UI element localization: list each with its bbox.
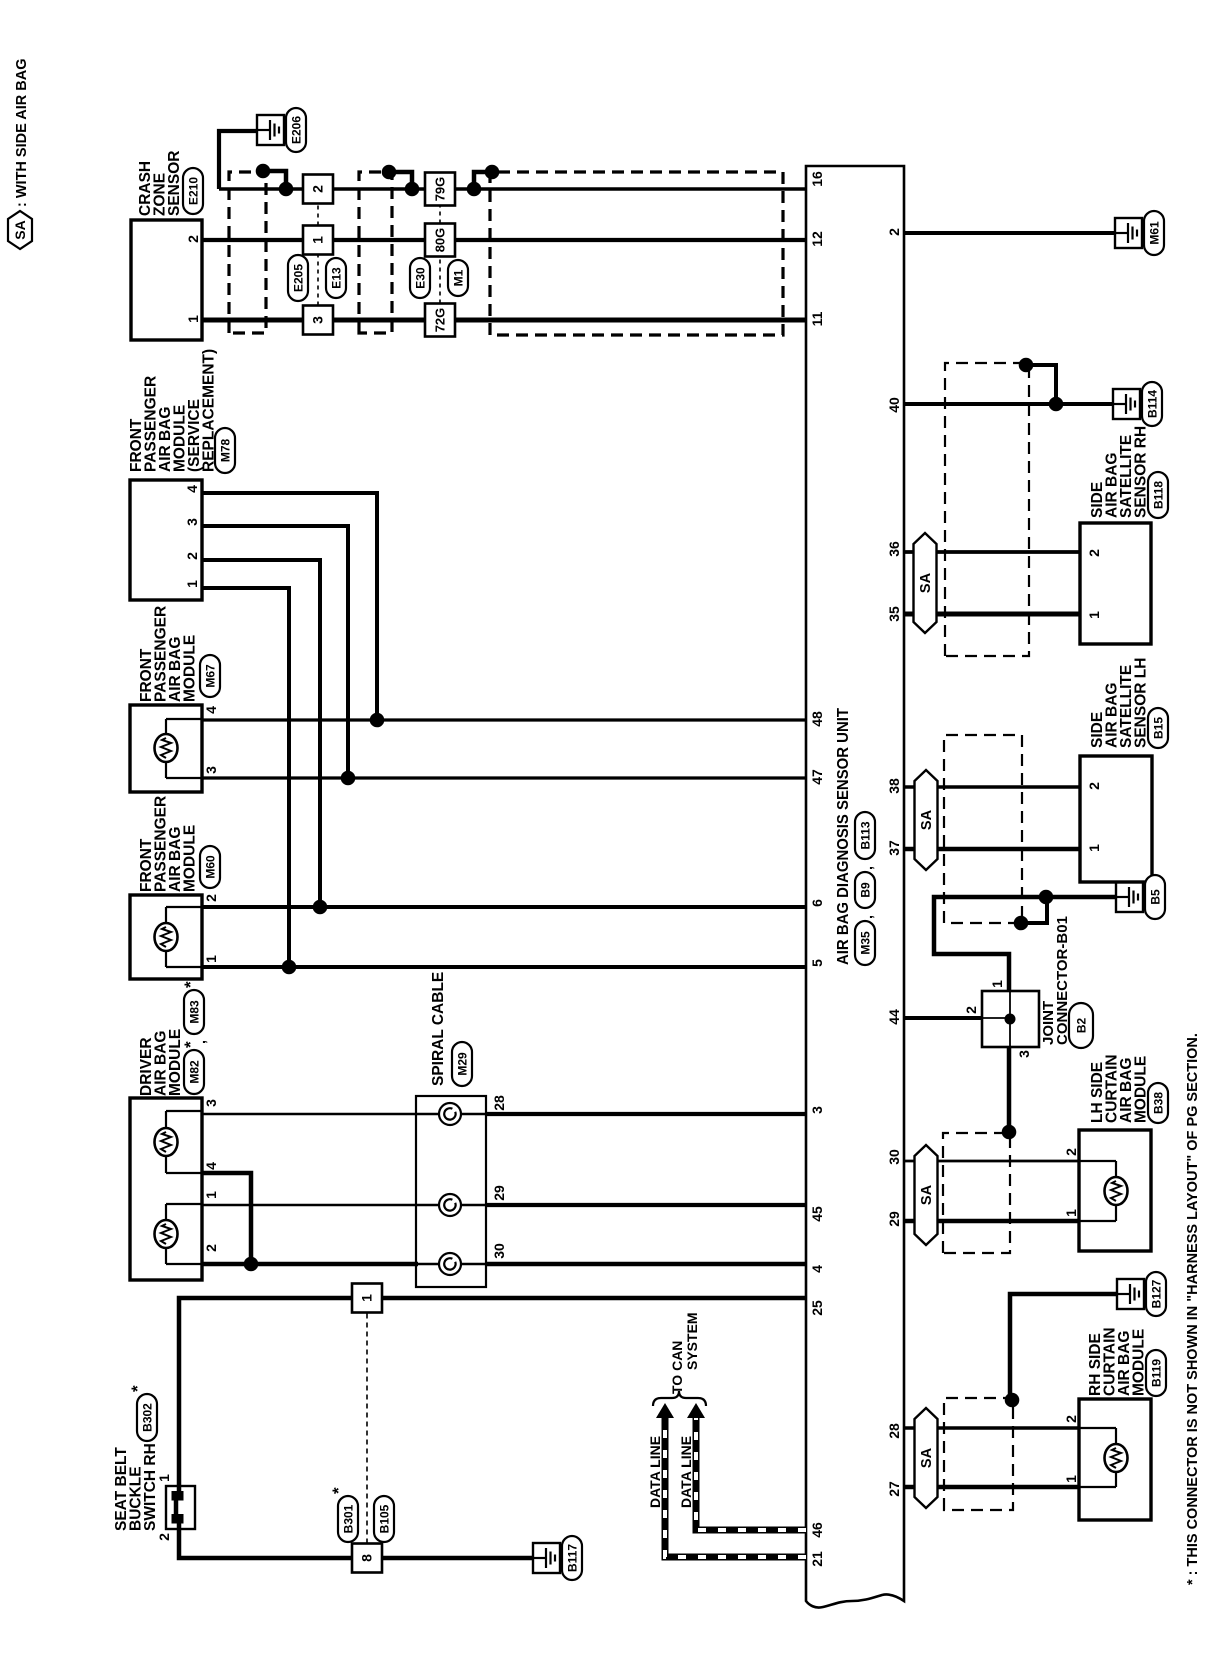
wire M78 pin3 to node 47 (202, 526, 355, 785)
svg-text:,: , (859, 915, 875, 919)
svg-text:E13: E13 (329, 267, 343, 289)
svg-text:M67: M67 (203, 664, 217, 688)
front passenger air bag module M67 box (130, 705, 219, 792)
svg-text:2: 2 (156, 1533, 172, 1541)
svg-text:B118: B118 (1151, 481, 1165, 509)
svg-text:35: 35 (886, 606, 902, 622)
connector ovals E30 M1 (410, 258, 468, 298)
M78 label (128, 349, 235, 473)
data line wire to CAN (bus pin 21) (656, 1403, 806, 1557)
side air bag satellite sensor RH box (1080, 523, 1151, 644)
M60 label (138, 796, 220, 892)
svg-text:DATA LINE: DATA LINE (678, 1436, 694, 1508)
svg-text:29: 29 (491, 1185, 507, 1201)
wire driver pin1 to spiral cable (202, 1204, 439, 1207)
svg-text:SA: SA (918, 572, 934, 593)
svg-text:1: 1 (1086, 611, 1102, 619)
LH side curtain air bag module box (1063, 1130, 1151, 1251)
svg-text:1: 1 (184, 580, 200, 588)
svg-text:B15: B15 (1151, 717, 1165, 739)
satellite RH label (1089, 426, 1168, 518)
svg-text:1: 1 (1086, 844, 1102, 852)
front passenger air bag module service replacement M78 box (130, 480, 202, 600)
svg-text:2: 2 (203, 894, 219, 902)
shield dashed box LH curtain (943, 1133, 1010, 1253)
wire M67 pin4 to bus pin48 (202, 718, 806, 721)
bus bottom pin numbers 2 40 36 35 38 37 44 30 29 28 27 (886, 228, 902, 1497)
svg-text:8: 8 (359, 1554, 375, 1562)
svg-text:45: 45 (809, 1206, 825, 1222)
dashed link between connectors 1 and 8 (366, 1313, 368, 1544)
svg-text:27: 27 (886, 1481, 902, 1497)
svg-text:2: 2 (886, 228, 902, 236)
shield dashed box S3 (490, 172, 783, 335)
svg-text:M61: M61 (1147, 221, 1161, 245)
svg-text:4: 4 (184, 485, 200, 493)
SA section hexagon RH curtain (915, 1408, 938, 1508)
seat belt buckle switch label (113, 1385, 159, 1531)
wire RH curtain shield drain to ground B127 (1005, 1294, 1117, 1407)
svg-text:2: 2 (310, 185, 326, 193)
svg-text:6: 6 (809, 899, 825, 907)
M67 label (138, 606, 220, 702)
svg-text:2: 2 (963, 1006, 979, 1014)
SA section hexagon LH satellite (915, 770, 938, 870)
wire bus pin28 to RH curtain pin2 (904, 1426, 1079, 1429)
front passenger air bag module M60 box (130, 894, 219, 979)
crash zone sensor label (137, 151, 203, 216)
wire M78 pin4 to node 48 (202, 493, 384, 727)
squib RH curtain (1105, 1444, 1128, 1472)
svg-text:2: 2 (1063, 1148, 1079, 1156)
svg-text:,: , (859, 866, 875, 870)
ground B114 (1113, 382, 1162, 426)
svg-text:1: 1 (1063, 1209, 1079, 1217)
svg-text:SYSTEM: SYSTEM (684, 1312, 700, 1370)
svg-text:72G: 72G (433, 308, 448, 333)
svg-text:3: 3 (310, 316, 326, 324)
wire driver pin3 to spiral cable (202, 1113, 439, 1116)
svg-text:11: 11 (809, 311, 825, 326)
svg-text:3: 3 (1016, 1050, 1032, 1058)
wire bus pin27 to RH curtain pin1 (904, 1485, 1079, 1489)
wire spiral pin29 to bus pin45 (439, 1204, 806, 1207)
svg-text:1: 1 (1063, 1475, 1079, 1483)
svg-text:E206: E206 (289, 116, 303, 144)
wire switch pin2 to ground B117 (179, 1522, 533, 1558)
svg-text:B5: B5 (1148, 889, 1162, 905)
squib driver lower (155, 1220, 178, 1248)
svg-text:12: 12 (809, 231, 825, 247)
svg-text:SPIRAL CABLE: SPIRAL CABLE (430, 972, 447, 1086)
svg-text:2: 2 (185, 235, 201, 243)
ground B5 (1116, 875, 1165, 919)
svg-text:44: 44 (886, 1009, 902, 1025)
crash zone sensor E210 box (131, 220, 202, 340)
air bag diagnosis sensor unit box M35/B9/B113 (806, 166, 904, 1608)
connector square 8 on ground wire (352, 1544, 382, 1573)
driver module label (138, 981, 208, 1096)
svg-text:4: 4 (203, 706, 219, 714)
svg-text:,: , (192, 1040, 208, 1044)
svg-text:1: 1 (203, 1191, 219, 1199)
svg-text:36: 36 (886, 541, 902, 557)
svg-text:4: 4 (809, 1265, 825, 1273)
svg-text:B9: B9 (858, 882, 872, 898)
svg-text:MODULE: MODULE (167, 1029, 184, 1096)
wire bus pin35 to satellite RH pin1 (904, 612, 1080, 617)
shield dashed box RH satellite (945, 363, 1029, 656)
bus top pin numbers 16 12 11 48 47 6 5 3 45 4 25 46 21 (809, 171, 825, 1567)
wire M78 pin2 to node 6 (202, 560, 327, 914)
joint connector label (1040, 916, 1093, 1048)
svg-text:28: 28 (491, 1095, 507, 1111)
svg-text:B38: B38 (1151, 1092, 1165, 1114)
connector square 1 on wire 25 (352, 1284, 382, 1313)
ground E206 (257, 108, 306, 152)
brace to CAN system (653, 1391, 706, 1406)
svg-text:*: * (181, 981, 200, 988)
wire bus pin44 to joint connector pin2 (904, 1016, 982, 1020)
shield dashed box S2 (359, 172, 392, 333)
connector ovals E205 E13 (288, 255, 346, 301)
svg-text:B119: B119 (1149, 1359, 1163, 1387)
svg-text:1: 1 (203, 955, 219, 963)
svg-text:E30: E30 (413, 267, 427, 289)
ground M61 (1115, 211, 1164, 255)
svg-text:46: 46 (809, 1522, 825, 1538)
ground B117 (533, 1536, 582, 1580)
shield drain junction dots S1 (256, 164, 294, 197)
connector row E30/M1 squares 79G 80G 72G (425, 173, 455, 337)
wire driver pin4 to node with pin2 (202, 1173, 258, 1271)
svg-text:28: 28 (886, 1423, 902, 1439)
squib driver upper (155, 1128, 178, 1156)
wire spiral pin28 to bus pin3 (439, 1113, 806, 1116)
svg-text:16: 16 (809, 171, 825, 187)
svg-text:47: 47 (809, 769, 825, 785)
svg-text:29: 29 (886, 1211, 902, 1227)
svg-text:SA: SA (12, 220, 28, 239)
svg-text:3: 3 (809, 1106, 825, 1114)
svg-text:5: 5 (809, 959, 825, 967)
squib LH curtain (1105, 1177, 1128, 1205)
svg-text:M60: M60 (203, 855, 217, 879)
connector row E205/E13 squares 2 1 3 (303, 175, 333, 335)
wire switch pin1 to bus pin25 (179, 1298, 806, 1492)
switch contacts (172, 1491, 184, 1524)
svg-text:SENSOR: SENSOR (166, 151, 183, 216)
svg-text:21: 21 (809, 1551, 825, 1567)
slip ring contact pin29 (439, 1194, 461, 1216)
svg-text:B114: B114 (1145, 390, 1159, 418)
slip ring contact pin30 (439, 1253, 461, 1275)
svg-text:M83: M83 (187, 1000, 201, 1024)
svg-text:M82: M82 (187, 1060, 201, 1084)
wire crash pin2 to bus pin12 (202, 238, 806, 242)
svg-text:E210: E210 (186, 177, 200, 205)
data line wire to CAN (bus pin 46) (687, 1403, 806, 1530)
squib M67 (155, 734, 178, 762)
wire bus pin37 to satellite LH pin1 (904, 847, 1080, 852)
spiral cable M29 box (416, 1095, 507, 1287)
svg-text:B113: B113 (858, 821, 872, 849)
connector ovals B301 B105 (329, 1487, 394, 1542)
wire bus pin2 to ground M61 (904, 231, 1115, 235)
shield dashed box RH curtain (944, 1398, 1013, 1510)
wire joint pin1 to ground B5 (934, 890, 1116, 991)
wire M67 pin3 to bus pin47 (202, 776, 806, 779)
svg-text:2: 2 (1086, 782, 1102, 790)
svg-text:2: 2 (1063, 1415, 1079, 1423)
shield drain LH satellite to ground wire (1014, 897, 1047, 930)
RH side curtain air bag module box (1063, 1399, 1151, 1520)
svg-text:40: 40 (886, 397, 902, 413)
svg-text:4: 4 (203, 1162, 219, 1170)
svg-text:1: 1 (185, 315, 201, 323)
svg-text:2: 2 (1086, 549, 1102, 557)
svg-text:*: * (128, 1385, 147, 1392)
wire bus pin30 to LH curtain pin2 (904, 1160, 1079, 1163)
wire M60 pin1 to bus pin5 (202, 965, 806, 969)
wire joint pin3 to LH curtain shield (1002, 1047, 1017, 1139)
satellite LH label (1089, 658, 1168, 748)
shield drain junction dots S3 (467, 165, 500, 197)
wire spiral pin30 to bus pin4 (486, 1262, 806, 1267)
svg-text:B117: B117 (565, 1544, 579, 1572)
svg-text:: WITH SIDE AIR BAG: : WITH SIDE AIR BAG (14, 59, 30, 207)
wire M78 pin1 to node 5 (202, 588, 296, 974)
svg-text:2: 2 (203, 1244, 219, 1252)
svg-text:SA: SA (919, 809, 935, 830)
svg-text:AIR BAG DIAGNOSIS SENSOR UNIT: AIR BAG DIAGNOSIS SENSOR UNIT (835, 707, 852, 965)
wire bus pin38 to satellite LH pin2 (904, 785, 1080, 789)
svg-text:M35: M35 (858, 931, 872, 955)
svg-text:E205: E205 (291, 264, 305, 292)
to CAN system label (669, 1312, 700, 1394)
svg-text:TO CAN: TO CAN (669, 1341, 685, 1394)
svg-text:M1: M1 (451, 269, 465, 286)
side air bag satellite sensor LH box (1080, 756, 1152, 882)
slip ring contact pin28 (439, 1103, 461, 1125)
svg-text:B105: B105 (377, 1504, 391, 1533)
svg-text:30: 30 (886, 1149, 902, 1165)
header text WITH SIDE AIR BAG (14, 59, 30, 207)
svg-text:MODULE: MODULE (182, 825, 199, 892)
RH curtain label (1087, 1327, 1166, 1396)
svg-text:B2: B2 (1074, 1018, 1088, 1034)
wire crash pin1 to bus pin11 (202, 318, 806, 323)
svg-text:DATA LINE: DATA LINE (647, 1436, 663, 1508)
wire bus pin29 to LH curtain pin1 (904, 1219, 1079, 1224)
svg-text:M78: M78 (218, 439, 232, 463)
svg-text:25: 25 (809, 1300, 825, 1316)
svg-text:2: 2 (184, 552, 200, 560)
svg-text:79G: 79G (433, 177, 448, 202)
svg-text:1: 1 (310, 236, 326, 244)
svg-text:37: 37 (886, 840, 902, 856)
svg-text:SA: SA (919, 1184, 935, 1205)
SA section hexagon LH curtain (915, 1145, 938, 1245)
svg-text:B127: B127 (1149, 1279, 1163, 1308)
squib M60 (155, 923, 178, 951)
svg-text:3: 3 (203, 1099, 219, 1107)
shield dashed box LH satellite (944, 735, 1022, 923)
wire bus pin40 to ground B114 (904, 397, 1113, 412)
svg-text:M29: M29 (455, 1052, 469, 1076)
seat belt buckle switch RH B302 box (156, 1474, 195, 1541)
svg-text:3: 3 (184, 518, 200, 526)
svg-text:MODULE: MODULE (182, 635, 199, 702)
svg-text:B302: B302 (140, 1403, 154, 1432)
svg-text:1: 1 (989, 980, 1005, 988)
LH curtain label (1089, 1054, 1168, 1123)
svg-text:30: 30 (491, 1243, 507, 1259)
shield drain elbow to B114 wire (1019, 358, 1056, 404)
svg-text:B301: B301 (341, 1504, 355, 1533)
svg-text:SWITCH RH: SWITCH RH (142, 1443, 159, 1531)
svg-text:80G: 80G (433, 228, 448, 253)
wire bus pin36 to satellite RH pin2 (904, 550, 1080, 554)
svg-text:3: 3 (203, 766, 219, 774)
footnote asterisk note (1185, 1033, 1201, 1585)
data line labels (647, 1436, 694, 1508)
driver air bag module box M82 M83 (130, 1098, 219, 1280)
svg-text:1: 1 (359, 1294, 375, 1302)
wire M60 pin2 to bus pin6 (202, 905, 806, 909)
shield drain junction dots S2 (382, 165, 420, 197)
wire driver pin2 to spiral cable (202, 1262, 418, 1267)
ground B127 (1117, 1272, 1166, 1316)
joint connector B01 B2 box (963, 980, 1039, 1058)
shield dashed box S1 (229, 172, 266, 333)
svg-text:* : THIS CONNECTOR IS NOT SHO: * : THIS CONNECTOR IS NOT SHOWN IN "HARN… (1185, 1033, 1201, 1585)
SA section hexagon RH satellite (914, 533, 937, 633)
svg-text:*: * (329, 1487, 348, 1494)
wire shield drain to bus pin16 (219, 131, 806, 189)
spiral cable label (430, 972, 472, 1086)
svg-text:38: 38 (886, 778, 902, 794)
header SA flag symbol (8, 211, 32, 249)
svg-text:48: 48 (809, 711, 825, 727)
svg-text:SA: SA (919, 1447, 935, 1468)
